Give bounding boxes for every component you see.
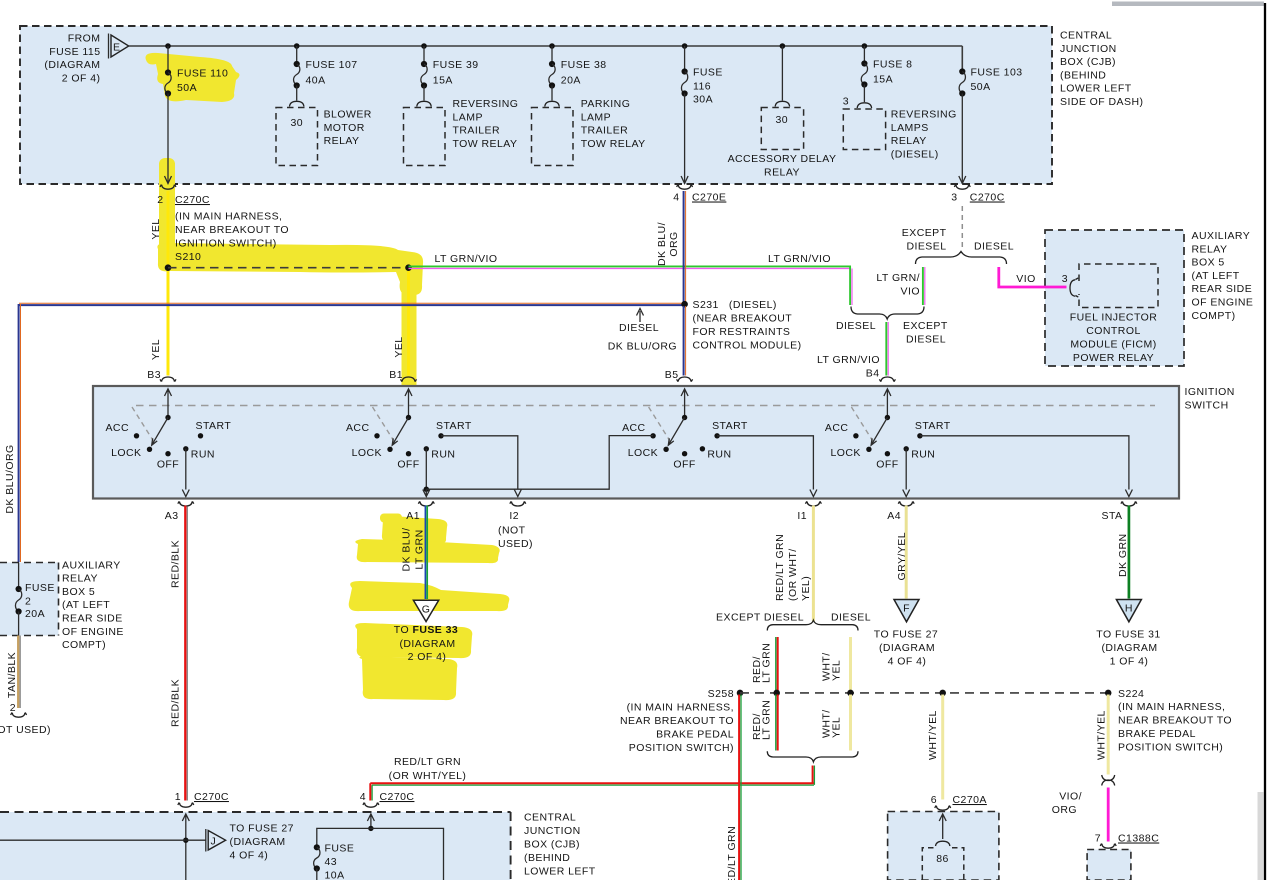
wire RED/LT GRN from S258 down [739,695,741,880]
node at FUSE 8 [862,43,868,49]
svg-text:1: 1 [175,791,181,803]
gang 1 LOCK contact [147,447,152,452]
connector C270C pin 3 [951,185,1005,204]
svg-text:NEAR BREAKOUT TO: NEAR BREAKOUT TO [620,715,734,727]
label DK BLU/ LT GRN rotated [401,528,426,572]
pin A3 [165,501,194,522]
node at FUSE 116 [682,43,688,49]
gang 3 OFF contact [682,451,687,456]
svg-text:CONTROL MODULE): CONTROL MODULE) [693,340,802,352]
S210 bus dashed wire [168,267,409,269]
accessory delay relay pin arc [775,101,789,106]
svg-text:AUXILIARY: AUXILIARY [1192,230,1251,242]
page border gray area (bottom right) [1258,792,1264,880]
svg-text:RED/LT GRN: RED/LT GRN [394,756,461,768]
central junction box label (top right) [1060,30,1143,109]
svg-text:OFF: OFF [673,459,695,471]
svg-text:2: 2 [157,194,163,206]
svg-text:15A: 15A [873,73,893,85]
svg-text:DIESEL: DIESEL [974,241,1014,253]
svg-text:USED): USED) [498,538,533,550]
gang 2 entry arrow from B pin [405,389,412,418]
svg-text:RED/BLK: RED/BLK [170,540,182,588]
central junction box (top CJB) [20,26,1052,184]
pin 4 entry arrow [367,814,374,828]
highlighter mark over FUSE 110 [146,53,240,102]
gang 3 wiper lever [668,418,684,446]
svg-text:(AT LEFT: (AT LEFT [62,599,110,611]
wire loop with FUSE 43 [317,828,444,880]
svg-text:START: START [436,420,472,432]
wire fuse2 to box edge [18,612,20,636]
pin A4 [887,501,914,522]
gang 1 RUN contact [183,446,188,451]
bottom CJB label [524,812,596,878]
svg-text:LT GRN/: LT GRN/ [876,272,920,284]
svg-text:EXCEPT: EXCEPT [902,227,947,239]
svg-text:40A: 40A [306,74,326,86]
svg-text:(DIAGRAM: (DIAGRAM [230,836,286,848]
highlighter mark over DK BLU/LT GRN label (second stroke) [355,539,499,563]
pin 1 entry arrow [182,814,189,840]
svg-text:FUSE 107: FUSE 107 [306,59,358,71]
svg-text:(OR WHT/YEL): (OR WHT/YEL) [389,770,467,782]
svg-text:FUSE 39: FUSE 39 [433,59,479,71]
wire RED/LT GRN upper branch [776,637,778,692]
connector C270C pin 1 [175,791,229,807]
svg-text:VIO: VIO [1016,273,1035,285]
svg-text:B5: B5 [665,369,679,381]
fuse F103 50A [959,67,1022,97]
connector C270C pin 4 [360,791,415,807]
switch 3 START wire to I1 [717,436,813,490]
splice S258 node [737,690,744,697]
fuse F38 20A [549,46,607,89]
gang 3 linkage diagonal [649,407,672,444]
pin B3 [147,369,176,382]
gang 3 LOCK contact [663,447,668,452]
svg-text:TOW RELAY: TOW RELAY [453,138,518,150]
svg-text:ACC: ACC [346,422,370,434]
A1 exit arrow [423,489,430,496]
fuse F2 20A [15,582,54,620]
gang 4 wiper pivot node [885,415,890,420]
svg-text:S258: S258 [708,688,734,700]
wire LT GRN/VIO except-diesel branch [923,267,925,305]
node on J wire [183,838,188,843]
svg-text:(BEHIND: (BEHIND [1060,69,1106,81]
svg-text:RELAY: RELAY [891,135,927,147]
switch 1 RUN wire to A3 [182,449,189,497]
svg-text:ACC: ACC [825,422,849,434]
reversing lamps relay pin arc [857,103,871,108]
svg-text:(NEAR BREAKOUT: (NEAR BREAKOUT [693,313,793,325]
svg-text:A3: A3 [165,510,179,522]
svg-text:20A: 20A [561,74,581,86]
svg-text:50A: 50A [177,82,197,94]
wire VIO/ORG [1107,788,1110,842]
wire RED/LT GRN (OR WHT/YEL) from I1 [812,506,815,622]
svg-text:CONTROL: CONTROL [1086,325,1141,337]
svg-text:FUSE: FUSE [25,582,55,594]
fuse F8 15A [861,46,912,88]
svg-text:OFF: OFF [157,459,179,471]
wire DK BLU/ORG from C270E to S231 [684,191,686,302]
blower motor relay box [276,108,318,166]
svg-text:(AT LEFT: (AT LEFT [1192,270,1240,282]
svg-text:RELAY: RELAY [1192,243,1228,255]
svg-text:WHT/YEL: WHT/YEL [1096,710,1108,760]
svg-text:LT GRN: LT GRN [761,700,773,740]
svg-text:RED/LT GRN: RED/LT GRN [726,826,738,880]
svg-text:RELAY: RELAY [62,573,98,585]
accessory delay relay label [728,153,837,178]
svg-text:START: START [712,420,748,432]
wire inside box from pin 1 [185,840,187,880]
wire DK BLU/LT GRN from A1 to G [425,506,427,600]
gang 1 wiper pivot node [165,415,170,420]
svg-text:E: E [113,42,120,54]
svg-text:ACC: ACC [105,422,129,434]
svg-text:2: 2 [25,596,31,608]
svg-text:4 OF 4): 4 OF 4) [230,850,269,862]
gang 1 OFF contact [165,451,170,456]
wire WHT/YEL lower branch [849,695,852,751]
svg-text:3: 3 [1062,273,1068,285]
relay pin 86 arc [936,841,950,846]
wire RED/LT GRN lower branch [776,695,778,751]
svg-text:VIO/: VIO/ [1059,791,1082,803]
fuse F110 50A [165,46,228,97]
pin A1 [406,501,434,522]
svg-text:FUSE 115: FUSE 115 [49,46,100,58]
label WHT/ YEL (lower) [821,709,843,738]
svg-text:COMPT): COMPT) [1192,310,1236,322]
svg-text:YEL: YEL [393,336,405,357]
svg-text:FUSE: FUSE [325,843,355,855]
node at FUSE 107 [294,43,300,49]
dashed diesel stub below pin 3 [961,206,963,251]
highlighter mark over YEL wire to B1 and into ignition switch [402,267,417,442]
svg-text:C1388C: C1388C [1118,833,1159,845]
svg-text:LOWER LEFT: LOWER LEFT [1060,83,1132,95]
svg-text:(DIAGRAM: (DIAGRAM [399,638,455,650]
svg-text:(IN MAIN HARNESS,: (IN MAIN HARNESS, [627,702,734,714]
svg-text:BOX (CJB): BOX (CJB) [524,839,580,851]
page border line (right) [1264,3,1266,880]
wire FUSE103 to pin 3 C270C [959,94,966,184]
dashed module box at C270A [888,812,999,880]
reversing lamp trailer tow relay box [404,108,446,166]
svg-text:2 OF 4): 2 OF 4) [62,72,101,84]
wire to J triangle [0,839,206,841]
svg-text:TO FUSE 27: TO FUSE 27 [230,823,294,835]
gang 1 START contact [198,433,203,438]
svg-text:CENTRAL: CENTRAL [524,812,576,824]
svg-text:6: 6 [931,794,937,806]
switch 4 START wire to STA [920,436,1129,490]
blower motor relay label [324,109,372,148]
auxiliary relay box 5 label (left) [62,559,124,651]
wire FUSE116 to pin 4 C270E [681,94,688,184]
relay terminal 86 box [922,848,964,880]
wire LT GRN/VIO down to diesel brace [850,266,852,305]
gang 4 linkage diagonal [851,407,874,444]
svg-text:F: F [903,603,910,615]
STA exit arrow [1125,490,1132,497]
svg-text:TO FUSE 27: TO FUSE 27 [874,629,938,641]
svg-text:ACCESSORY DELAY: ACCESSORY DELAY [728,153,837,165]
svg-text:BLOWER: BLOWER [324,109,372,121]
wire to reversing lamp trailer tow relay [423,86,425,101]
svg-text:FUSE 110: FUSE 110 [177,68,228,80]
svg-text:LOCK: LOCK [628,447,658,459]
source triangle E [109,34,129,59]
svg-text:JUNCTION: JUNCTION [524,825,581,837]
parking lamp trailer tow relay box [532,108,574,166]
svg-text:LAMP: LAMP [453,111,483,123]
svg-text:C270C: C270C [175,194,210,206]
destination triangle F [894,600,919,622]
label RED/ LT GRN (lower) [751,700,773,740]
gang 4 ACC contact [853,433,858,438]
wire to reversing lamps relay (diesel) [863,85,865,103]
gang 3 RUN contact [700,446,705,451]
svg-text:OFF: OFF [397,459,419,471]
wire DK BLU/ORG left vertical [19,304,21,562]
ignition switch gang 4 [825,389,951,471]
svg-text:POSITION SWITCH): POSITION SWITCH) [1118,741,1223,753]
svg-text:JUNCTION: JUNCTION [1060,43,1117,55]
wire to accessory delay relay [781,46,783,101]
svg-text:LT GRN/VIO: LT GRN/VIO [435,253,498,265]
node at accessory delay relay [780,43,786,49]
pin STA [1102,501,1137,522]
svg-text:4: 4 [673,192,679,204]
svg-text:RUN: RUN [707,449,731,461]
node C270A branch [939,690,946,697]
pin 6 entry arrow [939,814,946,839]
pin B5 [665,369,693,382]
gang 3 START contact [714,433,719,438]
I2 not used label [498,525,533,551]
svg-text:TO FUSE 33: TO FUSE 33 [394,624,458,636]
svg-text:MOTOR: MOTOR [324,122,365,134]
svg-text:FUSE: FUSE [693,67,723,79]
pin B1 [389,369,416,382]
wire corner to FUSE 103 [961,46,963,72]
ignition switch gang 2 [346,389,472,471]
svg-text:COMPT): COMPT) [62,639,106,651]
svg-text:SIDE OF DASH): SIDE OF DASH) [1060,96,1143,108]
svg-text:LAMP: LAMP [581,111,611,123]
node at B1 branch [405,264,412,271]
svg-text:BOX 5: BOX 5 [1192,257,1225,269]
svg-text:RED/LT GRN: RED/LT GRN [774,534,786,601]
svg-text:REVERSING: REVERSING [891,109,957,121]
svg-text:4: 4 [360,791,366,803]
auxiliary relay box 5 (left, fuse 2) [0,563,59,636]
svg-text:BRAKE PEDAL: BRAKE PEDAL [1118,728,1196,740]
svg-text:ORG: ORG [668,231,680,256]
svg-text:IGNITION SWITCH): IGNITION SWITCH) [175,238,277,250]
svg-text:TAN/BLK: TAN/BLK [6,652,18,698]
connector C270C pin 2 [157,185,210,207]
label RED/ LT GRN (upper) [751,643,773,683]
gang 1 linkage diagonal [132,407,155,444]
node upper RED/LT GRN branch [773,690,780,697]
label VIO/ ORG [1052,791,1082,817]
svg-text:DK BLU/: DK BLU/ [401,528,413,572]
svg-text:LOCK: LOCK [352,447,382,459]
svg-text:EXCEPT DIESEL: EXCEPT DIESEL [716,612,804,624]
reversing lamps relay (diesel) box [843,109,885,150]
bus wire from E [129,45,962,47]
wire DK BLU/ORG S231 to B5 [684,306,686,376]
highlighter mark over TO FUSE 33 text [355,623,472,658]
gang 1 entry arrow from B pin [165,389,172,418]
svg-text:B4: B4 [866,368,880,380]
highlighter mark over DK BLU/LT GRN label (upper stroke) [382,516,447,544]
connector C1388C pin 7 [1095,833,1160,849]
svg-text:NEAR BREAKOUT TO: NEAR BREAKOUT TO [175,224,289,236]
svg-text:RED/BLK: RED/BLK [170,679,182,727]
pin I1 [797,501,821,522]
gang 3 ACC contact [650,433,655,438]
reversing lamp trailer tow relay label [453,98,519,150]
svg-text:1 OF 4): 1 OF 4) [1110,656,1149,668]
gang 2 wiper lever [392,418,408,446]
svg-text:FUSE 8: FUSE 8 [873,59,912,71]
wire WHT/YEL upper branch [849,637,852,692]
node at FUSE 110 [165,43,171,49]
svg-text:TO FUSE 31: TO FUSE 31 [1096,629,1160,641]
I1 exit arrow [810,490,817,497]
splice S224 node [1105,690,1112,697]
svg-text:STA: STA [1102,510,1123,522]
svg-text:YEL: YEL [831,660,843,681]
svg-text:B3: B3 [147,369,161,381]
brace merging diesel branches at B4 [851,307,924,320]
svg-text:GRY/YEL: GRY/YEL [896,532,908,580]
svg-text:7: 7 [1095,833,1101,845]
dashed module box at C1388C [1087,850,1131,880]
svg-text:DIESEL: DIESEL [619,322,659,334]
wire DK BLU/ORG horizontal from left edge [19,303,684,305]
svg-text:(DIESEL): (DIESEL) [891,148,939,160]
wire below fuse 43 [316,869,318,880]
svg-text:15A: 15A [433,74,453,86]
svg-text:YEL: YEL [150,218,162,239]
label LT GRN/ VIO [876,272,920,298]
wire A1 junction to switch 3 ACC [426,436,653,490]
gang 3 entry arrow from B pin [681,389,688,418]
wire RED/LT GRN merge to C270C pin 4 [370,766,814,801]
svg-text:FROM: FROM [68,33,101,45]
label EXCEPT DIESEL (right of B4 brace) [903,320,948,346]
gang 2 START contact [438,433,443,438]
svg-text:TOW RELAY: TOW RELAY [581,138,646,150]
gang 2 OFF contact [406,451,411,456]
svg-text:RUN: RUN [191,449,215,461]
gang 4 START contact [917,433,922,438]
svg-text:2 OF 4): 2 OF 4) [408,651,447,663]
accessory delay relay box [761,108,803,150]
svg-text:DIESEL: DIESEL [831,612,871,624]
gang 4 RUN contact [904,446,909,451]
svg-text:S210: S210 [175,251,201,263]
svg-text:I2: I2 [509,510,519,522]
svg-text:43: 43 [325,856,338,868]
svg-text:YEL: YEL [150,339,162,360]
wire WHT/YEL from S224 [1107,695,1110,775]
svg-text:TRAILER: TRAILER [453,125,501,137]
svg-text:YEL: YEL [831,717,843,738]
auxiliary relay box 5 label (right) [1192,230,1254,322]
svg-text:SWITCH: SWITCH [1185,399,1229,411]
svg-text:116: 116 [693,80,711,92]
auxiliary relay box 5 (FICM) [1045,230,1184,366]
gang 4 entry arrow from B pin [884,389,891,418]
label DK BLU/ ORG rotated [656,222,680,266]
svg-text:C270E: C270E [692,192,726,204]
node upper WHT/YEL branch [847,690,854,697]
wire LT GRN/VIO horizontal [409,266,852,268]
wire to blower relay [296,86,298,101]
svg-text:H: H [1125,603,1133,615]
svg-text:4 OF 4): 4 OF 4) [888,656,927,668]
svg-text:DIESEL: DIESEL [906,241,946,253]
svg-text:REAR SIDE: REAR SIDE [1192,283,1253,295]
svg-text:20A: 20A [25,608,45,620]
svg-text:A4: A4 [887,510,901,522]
svg-text:(OR WHT/: (OR WHT/ [787,548,799,601]
svg-text:DK GRN: DK GRN [1117,533,1129,577]
splice S210 node [165,264,172,271]
gang 3 wiper pivot node [682,415,687,420]
svg-text:RUN: RUN [911,449,935,461]
parking lamp relay pin arc [545,101,559,106]
label TO FUSE 33 [394,624,458,663]
svg-text:TRAILER: TRAILER [581,125,629,137]
pin B4 [866,368,896,382]
FICM relay pin arc [1070,278,1078,297]
gang 2 wiper pivot node [406,415,411,420]
svg-text:30: 30 [776,114,789,126]
switch 4 RUN wire to A4 [903,449,910,497]
svg-text:LT GRN/VIO: LT GRN/VIO [768,253,831,265]
svg-text:LOCK: LOCK [111,447,141,459]
svg-text:LAMPS: LAMPS [891,122,929,134]
pin 2 (not used) [0,702,51,736]
node at pin 4 on loop [368,826,373,831]
svg-text:DIESEL: DIESEL [906,334,946,346]
svg-text:VIO: VIO [901,286,920,298]
svg-text:FUEL INJECTOR: FUEL INJECTOR [1070,312,1158,324]
highlighter mark over FUSE 110 wire to C270C [159,158,175,250]
svg-text:(DIAGRAM: (DIAGRAM [1101,642,1157,654]
svg-text:(DIAGRAM: (DIAGRAM [879,642,935,654]
svg-text:(DIAGRAM: (DIAGRAM [44,59,100,71]
svg-text:WHT/YEL: WHT/YEL [927,710,939,760]
in-line connector at S224 branch [1102,775,1115,786]
splice S224 note [1118,701,1232,754]
destination triangle H [1116,600,1141,622]
highlighter mark near A1 label [380,514,402,523]
svg-text:DK BLU/ORG: DK BLU/ORG [4,444,16,513]
gang 2 RUN contact [424,446,429,451]
svg-text:C270C: C270C [380,791,415,803]
